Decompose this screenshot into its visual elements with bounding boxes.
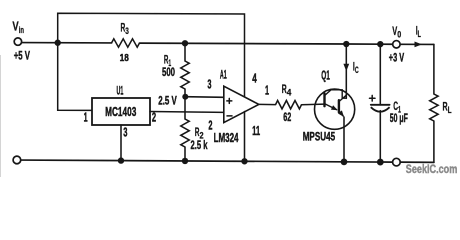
wire Vin junction drop to U1 pin 1 [58, 43, 92, 111]
svg-text:4: 4 [252, 71, 257, 86]
svg-text:+3 V: +3 V [389, 53, 405, 65]
label MPSU45 [303, 129, 336, 143]
wire ground rail [21, 160, 393, 162]
watermark SeekIC.com [406, 164, 458, 176]
svg-text:3: 3 [123, 124, 127, 139]
svg-text:+5 V: +5 V [14, 48, 30, 62]
pin 1 label U1 [84, 110, 88, 125]
node Q1 emitter ground junction [341, 158, 348, 165]
svg-text:500: 500 [162, 65, 175, 79]
svg-text:A1: A1 [220, 67, 227, 81]
svg-text:2.5 V: 2.5 V [158, 94, 177, 108]
label C1 [393, 99, 401, 115]
svg-text:50 μF: 50 μF [390, 111, 408, 125]
label RL [443, 100, 452, 117]
label 50 uF (C1 value) [390, 111, 408, 125]
transistor Q1 output collector [339, 95, 346, 101]
label V0 [392, 24, 401, 40]
wire 2.5V node to op-amp non-inverting input [185, 96, 224, 99]
resistor RL [430, 94, 438, 121]
wire op-amp output [259, 103, 276, 105]
label +5 V [14, 48, 30, 62]
svg-text:11: 11 [252, 123, 260, 138]
transistor Q1 output emitter [338, 110, 344, 117]
label +3 V [389, 53, 405, 65]
resistor R4 [276, 101, 302, 109]
wire R2 top lead [184, 97, 186, 119]
capacitor C1 polarity plus [370, 95, 376, 101]
wire top rail middle (R3 to Q1 collector) [140, 42, 347, 45]
wire U1 pin 3 to ground rail [120, 125, 122, 161]
resistor R1 [181, 61, 189, 89]
pin 3 label U1 [123, 124, 127, 139]
wire C1 bottom lead [379, 111, 381, 162]
transistor Q1 driver emitter [325, 104, 338, 111]
wire R2 bottom lead [184, 147, 186, 161]
label 18 (R3 value) [120, 52, 129, 64]
label Ic [353, 60, 359, 76]
wire R1 bottom lead [184, 89, 186, 97]
transistor Q1 output base bar [338, 100, 340, 112]
node R1 top junction [182, 40, 188, 46]
node C1 top junction [377, 41, 383, 47]
label R4 [282, 82, 292, 99]
capacitor C1 plates [371, 105, 390, 112]
label R3 [121, 20, 129, 37]
transistor Q1 circle [315, 89, 355, 129]
label U1 [117, 84, 124, 98]
current arrow IL [415, 42, 423, 48]
pin 2 label op-amp [208, 118, 212, 133]
label LM324 [214, 131, 239, 145]
transistor Q1 driver base bar [323, 94, 325, 107]
label R1 [164, 55, 171, 68]
node U1 pin3 ground junction [118, 157, 124, 163]
label R2 [195, 125, 204, 142]
node R2 ground junction [182, 158, 188, 164]
resistor R3 [112, 39, 140, 47]
wire Q1 emitter to ground rail [343, 117, 345, 162]
wire top rail left (Vin to R3) [21, 42, 111, 44]
svg-text:Q1: Q1 [321, 68, 330, 82]
label Vin [12, 19, 24, 36]
wire V0 to RL corner [400, 43, 434, 45]
svg-text:1: 1 [84, 110, 88, 125]
wire RL top lead [433, 44, 435, 94]
svg-text:MPSU45: MPSU45 [303, 129, 336, 143]
pin 3 label op-amp [207, 77, 211, 92]
node Q1 collector junction [343, 41, 349, 47]
svg-text:SeekIC.com: SeekIC.com [406, 164, 458, 176]
node C1 ground junction [377, 159, 384, 166]
current arrow Ic [343, 64, 349, 71]
svg-text:3: 3 [207, 77, 211, 92]
pin 11 label op-amp [252, 123, 260, 138]
svg-text:2: 2 [208, 118, 212, 133]
label IL [416, 23, 421, 39]
svg-text:62: 62 [283, 110, 291, 124]
wire Q1 collector [345, 44, 347, 98]
pin 1 label op-amp [265, 83, 269, 98]
svg-text:18: 18 [120, 52, 129, 64]
label MC1403 [105, 105, 136, 119]
svg-text:U1: U1 [117, 84, 124, 98]
wire R1 top lead [184, 43, 186, 61]
op-amp A1 triangle [224, 86, 259, 122]
wire +5V bypass to op-amp pin 4 [58, 13, 245, 97]
node 2.5V divider junction [182, 94, 188, 100]
label 500 (R1 value) [162, 65, 175, 79]
wire U1 pin 2 to op-amp inverting input [150, 111, 224, 114]
svg-text:1: 1 [265, 83, 269, 98]
terminal Vin [14, 38, 21, 45]
wire RL bottom lead [433, 121, 435, 162]
resistor R2 [181, 119, 189, 147]
label 2.5 k (R2 value) [191, 138, 208, 152]
label A1 [220, 67, 227, 81]
terminal ground left [13, 156, 21, 164]
svg-text:MC1403: MC1403 [105, 105, 136, 119]
regulator U1 MC1403 box [92, 98, 150, 125]
label 62 (R4 value) [283, 110, 291, 124]
wire top rail right (to V0 terminal) [346, 43, 392, 45]
terminal ground right [393, 158, 401, 166]
label Q1 [321, 68, 330, 82]
left edge scan artifact [0, 55, 2, 177]
node op-amp pin11 ground junction [241, 158, 247, 164]
pin 4 label op-amp [252, 71, 257, 86]
terminal V0 [393, 41, 400, 48]
wire C1 top lead [379, 44, 381, 105]
svg-text:2.5 k: 2.5 k [191, 138, 208, 152]
svg-text:LM324: LM324 [214, 131, 239, 145]
wire op-amp pin 11 to ground rail [244, 112, 246, 162]
wire R4 to Q1 base [302, 103, 325, 106]
node Vin junction [55, 40, 61, 46]
transistor Q1 driver collector [325, 90, 347, 98]
pin 2 label U1 [152, 109, 156, 124]
label 2.5 V [158, 94, 177, 108]
wire ground rail right segment [401, 161, 434, 163]
